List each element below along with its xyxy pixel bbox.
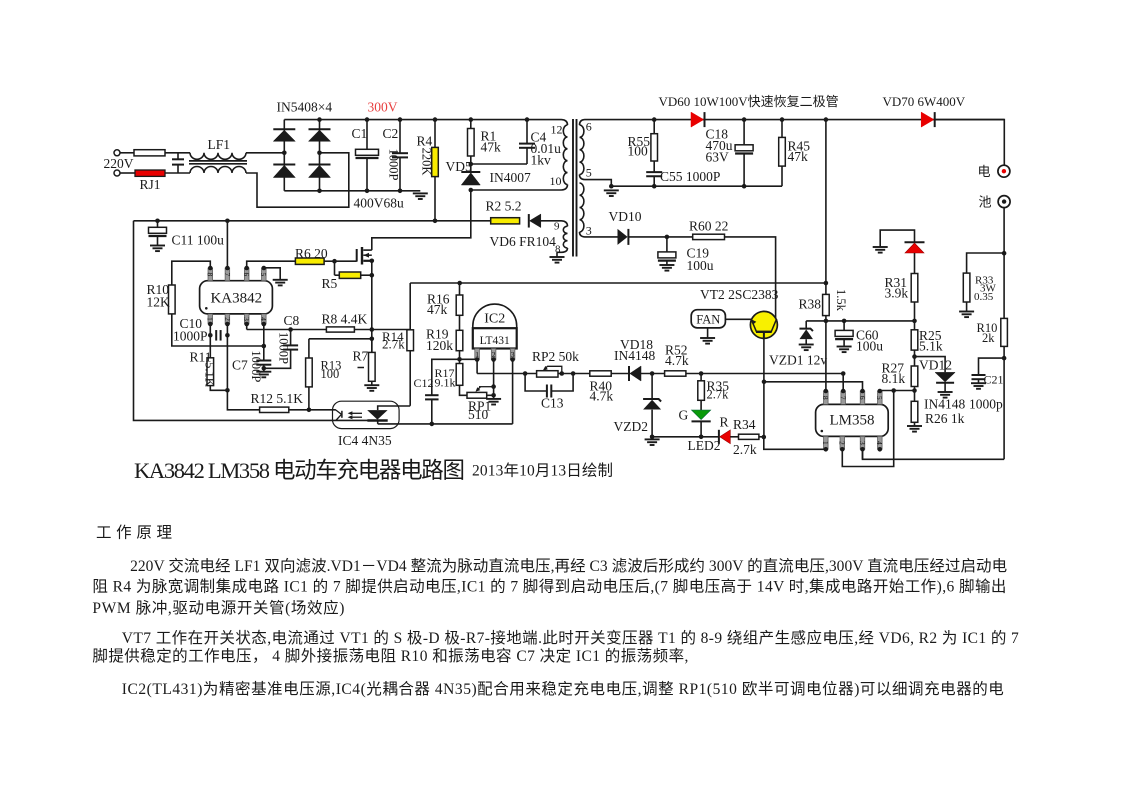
- wire minus to pin3: [863, 449, 1005, 459]
- node C2 top: [398, 117, 403, 122]
- resistor R27: [911, 366, 918, 387]
- wire pin10 line: [471, 189, 562, 191]
- svg-text:510: 510: [468, 407, 489, 422]
- transistor VT2: [750, 311, 777, 338]
- wire R13 top: [309, 338, 372, 340]
- wire pin6 riser: [764, 382, 863, 391]
- resistor R4: [434, 120, 436, 148]
- transistor VT1 body arrow: [363, 254, 372, 256]
- svg-text:1000P: 1000P: [387, 149, 401, 181]
- ground C21: [971, 382, 986, 384]
- capacitor C55: [646, 171, 662, 173]
- diode VD60: [691, 112, 704, 127]
- svg-text:2k: 2k: [982, 331, 995, 345]
- svg-text:100: 100: [321, 367, 340, 381]
- led IC4 input: [336, 410, 342, 421]
- svg-text:C13: C13: [541, 396, 564, 411]
- wire VT2 emitter: [763, 338, 765, 437]
- node C1 bottom: [365, 189, 370, 194]
- svg-text:220V: 220V: [104, 156, 134, 171]
- wire pin3 IC2 riser: [512, 360, 514, 424]
- svg-text:VD5: VD5: [446, 159, 472, 174]
- node box top right: [824, 281, 829, 286]
- node VD5 anode: [469, 188, 474, 193]
- svg-text:3: 3: [858, 441, 867, 445]
- pin LM358 3: [860, 436, 865, 449]
- wire pin1 to main: [476, 360, 478, 374]
- diode VD2: [309, 128, 331, 130]
- svg-text:1000P: 1000P: [249, 350, 263, 382]
- svg-text:2: 2: [223, 317, 232, 321]
- resistor R14: [407, 330, 414, 351]
- svg-text:400V68u: 400V68u: [354, 196, 404, 211]
- ground C11: [150, 245, 165, 247]
- node R4 bottom: [433, 219, 438, 224]
- pin KA 4: [262, 314, 267, 324]
- ic IC4 box: [333, 401, 400, 428]
- svg-text:7: 7: [839, 396, 848, 400]
- svg-text:9.1k: 9.1k: [435, 375, 456, 389]
- svg-text:VT2 2SC2383: VT2 2SC2383: [700, 287, 779, 302]
- svg-text:C55 1000P: C55 1000P: [660, 169, 720, 184]
- node C1 top: [365, 117, 370, 122]
- node R38 bottom: [824, 319, 829, 324]
- resistor R38: [823, 294, 830, 315]
- svg-text:100u: 100u: [856, 339, 883, 354]
- svg-text:2.7k: 2.7k: [382, 337, 405, 352]
- svg-text:1.5k: 1.5k: [834, 289, 848, 312]
- ic KA3842 body: [200, 281, 273, 314]
- wire R14 top: [372, 329, 410, 331]
- ground IC2 pin2: [486, 398, 501, 400]
- svg-text:G: G: [679, 408, 689, 423]
- svg-text:C1: C1: [352, 126, 368, 141]
- node C60 top: [842, 319, 847, 324]
- wire R6 to gate: [324, 260, 334, 262]
- resistor R45: [781, 120, 783, 138]
- pin KA 6: [244, 268, 249, 281]
- svg-text:C12: C12: [414, 376, 434, 390]
- svg-text:R5: R5: [322, 276, 338, 291]
- svg-text:100u: 100u: [687, 258, 714, 273]
- wire VD10 to R60: [628, 236, 692, 238]
- svg-text:IN4148: IN4148: [614, 348, 655, 363]
- capacitor C13: [525, 374, 547, 392]
- capacitor C1: [366, 120, 368, 149]
- resistor R12: [260, 407, 289, 412]
- node R31 R25: [912, 319, 917, 324]
- resistor R40: [590, 371, 611, 376]
- svg-text:4: 4: [259, 317, 268, 321]
- transistor VT1 channel: [361, 247, 363, 265]
- wire LF1 bottom to bridge: [246, 153, 349, 207]
- wire main line D: [640, 373, 664, 375]
- svg-text:RP2 50k: RP2 50k: [532, 349, 579, 364]
- node VZD2 bottom: [650, 435, 655, 440]
- resistor R35: [700, 374, 702, 381]
- svg-text:6: 6: [858, 396, 867, 400]
- svg-text:VT7 工作在开关状态,电流通过 VT1 的 S 极-D 极: VT7 工作在开关状态,电流通过 VT1 的 S 极-D 极-R7-接地端.此时…: [122, 628, 1019, 647]
- node bridge AC2: [317, 151, 322, 156]
- arrow IC4 a: [350, 412, 362, 414]
- transformer core: [572, 119, 574, 257]
- ic IC2 body: [473, 328, 517, 348]
- svg-text:C11 100u: C11 100u: [172, 233, 225, 248]
- wire box top line: [410, 282, 826, 284]
- svg-text:VD10: VD10: [609, 209, 642, 224]
- wire R10 bottom: [172, 314, 264, 346]
- wire LF1 top to bridge: [246, 152, 284, 154]
- diode VD12: [915, 357, 946, 373]
- wire R8 right: [354, 329, 371, 331]
- svg-text:R2 5.2: R2 5.2: [486, 199, 522, 214]
- wire AC neutral input: [120, 172, 136, 174]
- svg-text:IN4148: IN4148: [924, 397, 965, 412]
- node R19 bottom: [457, 357, 462, 362]
- node RP2 right: [560, 371, 565, 376]
- svg-text:2.7k: 2.7k: [707, 388, 730, 402]
- capacitor C18: [743, 120, 745, 145]
- svg-text:4: 4: [875, 441, 884, 445]
- transistor VT1 source: [363, 260, 372, 262]
- svg-text:220V 交流电经 LF1 双向滤波.VD1－VD4 整流为: 220V 交流电经 LF1 双向滤波.VD1－VD4 整流为脉动直流电压,再经 …: [130, 557, 1007, 575]
- svg-text:5.1K: 5.1K: [203, 362, 217, 387]
- svg-text:2: 2: [838, 441, 847, 445]
- svg-text:1: 1: [206, 317, 215, 321]
- ground C19: [659, 264, 674, 266]
- ground VZD2: [645, 438, 660, 440]
- resistor R6: [295, 258, 324, 264]
- capacitor X-cap: [177, 153, 179, 159]
- wire bridge right column: [319, 120, 321, 191]
- svg-text:1kv: 1kv: [531, 153, 552, 168]
- capacitor C10: [215, 330, 217, 341]
- svg-text:6: 6: [586, 120, 592, 134]
- diode VD3: [273, 164, 295, 166]
- wire pin8 to R10: [172, 261, 211, 285]
- node pin5 gnd: [609, 184, 614, 189]
- terminal battery plus: [998, 165, 1010, 177]
- ground VZD1: [799, 344, 814, 346]
- svg-text:IN5408×4: IN5408×4: [277, 100, 333, 115]
- wire pin2 IC2 gnd: [493, 360, 495, 399]
- svg-text:LM358: LM358: [830, 412, 875, 428]
- inductor LF1 top coil: [190, 153, 246, 160]
- wire R14 riser: [409, 283, 411, 330]
- winding T1 sec 6-5: [580, 120, 585, 125]
- pin KA 1: [208, 314, 213, 324]
- svg-text:VD12: VD12: [919, 358, 952, 373]
- diode VD1: [273, 128, 295, 130]
- pin KA 3: [244, 314, 249, 324]
- node R55 top: [652, 117, 657, 122]
- svg-text:R: R: [720, 415, 729, 430]
- pin KA 8: [208, 268, 213, 281]
- wire bridge bottom rail: [284, 190, 420, 192]
- diode VD4: [309, 164, 331, 166]
- wire IC4 emitter: [377, 421, 379, 424]
- capacitor C60: [843, 321, 845, 330]
- svg-text:FAN: FAN: [696, 312, 720, 326]
- led LED2: [718, 430, 720, 444]
- svg-text:12K: 12K: [147, 295, 171, 310]
- photodiode IC4: [367, 410, 387, 420]
- svg-text:IN4007: IN4007: [490, 170, 531, 185]
- svg-text:5: 5: [259, 272, 268, 276]
- wire RJ1 to LF1: [165, 172, 190, 174]
- capacitor C2: [399, 120, 401, 153]
- svg-text:脚提供稳定的工作电压， 4 脚外接振荡电阻 R10 和振荡电: 脚提供稳定的工作电压， 4 脚外接振荡电阻 R10 和振荡电容 C7 决定 IC…: [92, 647, 688, 665]
- svg-text:47k: 47k: [427, 302, 448, 317]
- svg-text:LED2: LED2: [688, 438, 721, 453]
- wire R26 gnd: [914, 422, 916, 426]
- wire C8 line: [291, 329, 327, 331]
- svg-text:8: 8: [555, 244, 561, 256]
- svg-text:5: 5: [586, 166, 592, 180]
- wire bridge left column: [283, 120, 285, 191]
- svg-text:VZD1 12v: VZD1 12v: [769, 353, 827, 368]
- svg-text:63V: 63V: [706, 150, 730, 165]
- svg-text:R4: R4: [417, 134, 433, 149]
- resistor R1: [470, 120, 472, 129]
- svg-text:0.35: 0.35: [974, 291, 994, 303]
- pin IC2 3: [510, 349, 515, 360]
- svg-text:IC4 4N35: IC4 4N35: [338, 433, 392, 448]
- wire pin2 down: [227, 324, 259, 410]
- svg-text:KA3842 LM358 电动车充电器电路图: KA3842 LM358 电动车充电器电路图: [134, 458, 465, 483]
- svg-text:R6 20: R6 20: [295, 246, 328, 261]
- pin LM358 2: [840, 436, 845, 449]
- node LED junction: [699, 435, 704, 440]
- svg-text:9: 9: [554, 220, 560, 232]
- wiper RP1: [479, 386, 494, 388]
- node charge rail tap: [824, 117, 829, 122]
- resistor RJ1: [135, 170, 165, 176]
- svg-text:VD60 10W100V快速恢复二极管: VD60 10W100V快速恢复二极管: [659, 94, 839, 109]
- ground R33: [959, 311, 974, 313]
- resistor R7: [371, 339, 373, 353]
- svg-text:电: 电: [978, 164, 991, 179]
- wire fuse to LF1: [165, 152, 190, 154]
- svg-text:220K: 220K: [420, 148, 434, 176]
- transistor VT1 gate: [356, 249, 358, 262]
- node C18 bottom: [742, 184, 747, 189]
- resistor R2: [491, 218, 520, 224]
- wire R12 right: [289, 409, 336, 411]
- ground winding 8: [550, 256, 565, 258]
- svg-text:R38: R38: [799, 297, 822, 312]
- wire R17 to RP1: [460, 385, 468, 395]
- resistor R26: [911, 401, 918, 422]
- svg-text:3: 3: [242, 317, 251, 321]
- svg-text:3.9k: 3.9k: [885, 286, 909, 301]
- wire pin3 down: [246, 324, 248, 330]
- svg-text:3: 3: [586, 224, 592, 238]
- wire R60 to VT2: [725, 237, 776, 318]
- ground VD12: [938, 391, 953, 393]
- wire pin5 to pin2: [842, 391, 893, 467]
- ground R26: [907, 425, 922, 427]
- node R35 tap: [699, 371, 704, 376]
- wire main line E: [686, 373, 843, 375]
- wire 300V top bus: [284, 119, 561, 121]
- svg-text:1000P: 1000P: [276, 332, 290, 364]
- terminal battery minus: [998, 196, 1010, 208]
- wire pin5 line: [880, 390, 915, 392]
- pin LM358 6: [860, 391, 865, 404]
- svg-text:IC2(TL431)为精密基准电压源,IC4(光耦合器 4N: IC2(TL431)为精密基准电压源,IC4(光耦合器 4N35)配合用来稳定充…: [122, 680, 1004, 698]
- diode VD70: [921, 112, 934, 127]
- capacitor C11: [157, 221, 159, 227]
- wire LED2 to R34: [730, 436, 738, 438]
- svg-text:47k: 47k: [481, 140, 502, 155]
- resistor R10: [169, 285, 176, 314]
- svg-text:VD6 FR104: VD6 FR104: [490, 234, 557, 249]
- node C8 top: [288, 327, 293, 332]
- resistor R8: [326, 327, 354, 332]
- wire VCC bus: [134, 220, 491, 222]
- node bridge plus: [317, 117, 322, 122]
- capacitor C19: [666, 237, 668, 252]
- wire bottom common: [378, 423, 513, 425]
- resistor R52: [665, 371, 686, 376]
- node bridge minus: [317, 189, 322, 194]
- transistor VT1 drain: [363, 249, 372, 251]
- wire KA pin7 riser: [226, 221, 228, 268]
- pin LM358 7: [841, 391, 846, 404]
- ic IC2 dome: [473, 304, 517, 328]
- resistor R25: [911, 330, 918, 350]
- svg-text:8.1k: 8.1k: [882, 371, 906, 386]
- svg-text:IC2: IC2: [484, 312, 505, 327]
- wire secondary gnd rail: [611, 185, 782, 187]
- wire 12V rail: [806, 320, 915, 322]
- resistor R55: [653, 120, 655, 134]
- wire pin3 drop: [862, 449, 864, 459]
- svg-text:R26 1k: R26 1k: [925, 411, 965, 426]
- wire pin7 riser: [842, 374, 844, 392]
- svg-text:C7: C7: [232, 358, 248, 373]
- pin LM358 8: [824, 391, 829, 404]
- svg-text:LT431: LT431: [480, 335, 510, 347]
- node C21 tap: [1002, 356, 1007, 361]
- svg-text:2.7k: 2.7k: [733, 442, 757, 457]
- node R1 bottom: [469, 162, 474, 167]
- ground primary minus: [413, 192, 428, 194]
- pin LM358 4: [878, 436, 883, 449]
- svg-text:6: 6: [242, 272, 251, 276]
- svg-text:R8 4.4K: R8 4.4K: [322, 312, 368, 327]
- resistor R60: [693, 234, 725, 239]
- wire charge rail down: [825, 120, 827, 391]
- wire pin3 out: [585, 236, 618, 238]
- capacitor C4: [526, 120, 528, 144]
- svg-text:工作原理: 工作原理: [96, 523, 172, 541]
- svg-text:8: 8: [821, 396, 830, 400]
- pot RP2: [537, 371, 558, 377]
- box FAN: [691, 310, 725, 328]
- capacitor C21: [979, 358, 1005, 375]
- svg-text:1: 1: [821, 441, 830, 445]
- resistor R33: [967, 253, 1005, 273]
- wire pin1 down: [209, 324, 211, 358]
- wire IC4 collector: [378, 406, 411, 410]
- svg-text:4.7k: 4.7k: [665, 353, 689, 368]
- node C19 top: [665, 235, 670, 240]
- wire left frame: [134, 221, 388, 421]
- svg-text:1000p: 1000p: [969, 397, 1003, 412]
- node bridge AC1: [282, 151, 287, 156]
- wire LED1 anode: [880, 230, 914, 247]
- wire main line B: [558, 373, 590, 375]
- svg-text:10: 10: [550, 174, 562, 188]
- node C55 bottom: [652, 184, 657, 189]
- svg-text:VD70 6W400V: VD70 6W400V: [883, 94, 966, 109]
- wire R34 right: [759, 436, 764, 438]
- svg-text:VZD2: VZD2: [614, 419, 649, 434]
- svg-text:5.1k: 5.1k: [919, 339, 943, 354]
- resistor R19: [459, 315, 461, 330]
- diode VD6: [528, 214, 530, 228]
- pin KA 5: [262, 268, 267, 281]
- terminal AC N: [114, 170, 120, 176]
- led LED1: [905, 241, 925, 243]
- resistor R13: [308, 339, 310, 358]
- svg-text:PWM 脉冲,驱动电源开关管(场效应): PWM 脉冲,驱动电源开关管(场效应): [92, 598, 344, 617]
- inductor LF1 bottom coil: [190, 167, 246, 174]
- resistor R17: [456, 364, 463, 386]
- node RP2 left: [523, 371, 528, 376]
- led LEDG: [700, 400, 702, 410]
- ground C7: [256, 371, 271, 373]
- winding T1 primary 12-10: [562, 120, 568, 125]
- svg-text:C21: C21: [984, 373, 1004, 387]
- wire LED1 to R31: [914, 253, 916, 274]
- svg-text:RJ1: RJ1: [140, 177, 161, 192]
- node R25 R27: [912, 354, 917, 359]
- svg-text:8: 8: [206, 272, 215, 276]
- node C13 right: [571, 371, 576, 376]
- node R4 top: [433, 117, 438, 122]
- fuse FU: [134, 150, 165, 156]
- resistor R16: [459, 283, 461, 295]
- inductor LF1 core: [189, 160, 247, 162]
- svg-text:4.7k: 4.7k: [590, 388, 614, 403]
- capacitor C8: [290, 330, 292, 346]
- capacitor C12: [431, 399, 433, 424]
- pin KA 2: [225, 314, 230, 324]
- svg-text:120k: 120k: [426, 338, 453, 353]
- pin IC2 2: [491, 349, 496, 360]
- ground LED1: [873, 246, 888, 248]
- svg-text:100: 100: [628, 143, 649, 158]
- svg-text:300V: 300V: [368, 100, 398, 115]
- svg-text:C2: C2: [383, 126, 399, 141]
- svg-text:5: 5: [875, 396, 884, 400]
- node R27 R26: [912, 388, 917, 393]
- wire VZD2 to LED2: [652, 436, 719, 438]
- ground FAN: [700, 337, 715, 339]
- pot RP1: [467, 392, 487, 398]
- wire FAN gnd: [707, 328, 709, 338]
- svg-text:LF1: LF1: [208, 137, 231, 152]
- svg-text:阻 R4 为脉宽调制集成电路 IC1 的 7 脚提供启动电压: 阻 R4 为脉宽调制集成电路 IC1 的 7 脚提供启动电压,IC1 的 7 脚…: [92, 577, 1006, 595]
- resistor R34: [739, 434, 759, 439]
- svg-text:池: 池: [979, 195, 992, 210]
- diode VD18: [628, 366, 630, 381]
- pin LM358 5: [878, 391, 883, 404]
- ic LM358 body: [816, 404, 889, 436]
